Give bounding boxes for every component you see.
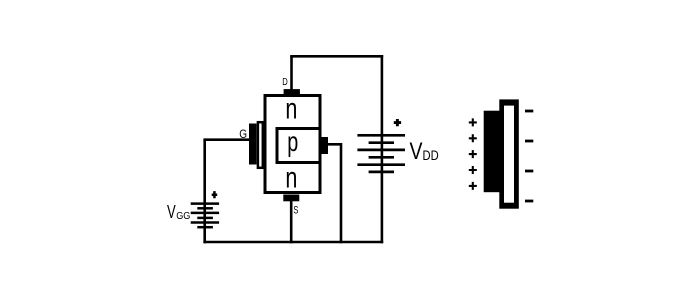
svg-text:V: V [167,201,176,222]
svg-text:GG: GG [176,211,190,222]
svg-text:n: n [285,161,297,194]
svg-text:G: G [239,127,247,141]
svg-text:S: S [293,205,298,217]
svg-text:DD: DD [423,147,439,163]
svg-text:V: V [410,138,424,165]
svg-text:n: n [285,93,297,126]
svg-text:p: p [287,126,298,157]
svg-text:D: D [282,76,288,88]
